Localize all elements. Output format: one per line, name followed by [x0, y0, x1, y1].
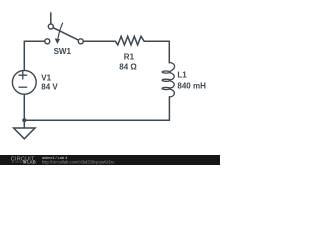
svg-text:http://circuitlab.com/c6bd338c: http://circuitlab.com/c6bd338cpcjw6r3ze	[42, 159, 115, 164]
node junction dot	[22, 118, 26, 122]
wire switch to resistor	[83, 40, 115, 42]
svg-text:SW1: SW1	[54, 47, 72, 56]
svg-text:V1: V1	[41, 73, 51, 82]
CircuitLab logo	[11, 157, 36, 165]
stub up from top throw	[50, 12, 52, 24]
wire right rail upper	[168, 41, 170, 63]
svg-text:L1: L1	[177, 71, 187, 80]
wire left rail upper	[23, 41, 25, 70]
blade	[53, 28, 79, 41]
svg-text:R1: R1	[124, 52, 135, 61]
wire top-left horizontal	[24, 40, 45, 42]
voltage source V1	[12, 70, 36, 94]
actuator arrow	[58, 23, 63, 39]
svg-text:84 V: 84 V	[41, 82, 58, 91]
resistor R1	[115, 36, 144, 45]
switch SW1	[45, 12, 84, 44]
ground	[14, 120, 35, 139]
top terminal	[48, 24, 53, 29]
wire left rail lower	[23, 94, 25, 120]
left terminal	[45, 39, 50, 44]
svg-text:84 Ω: 84 Ω	[119, 62, 137, 71]
svg-text:840 mH: 840 mH	[177, 82, 206, 91]
wire right rail lower	[168, 97, 170, 120]
svg-text:LAB: LAB	[27, 159, 36, 164]
wire bottom	[24, 119, 169, 121]
inductor L1	[162, 62, 175, 97]
wire resistor to corner	[144, 40, 169, 42]
watermark bar	[0, 155, 220, 165]
right terminal	[78, 39, 83, 44]
